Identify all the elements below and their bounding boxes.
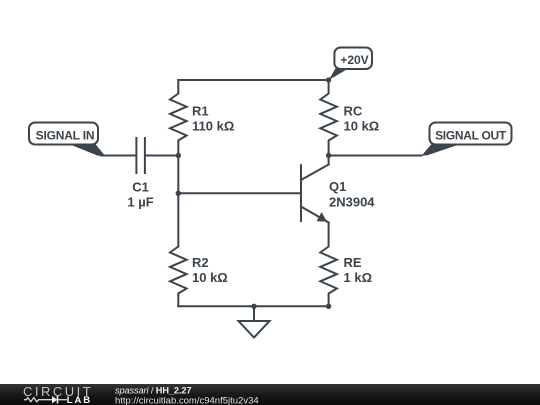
- footer url line: [115, 395, 259, 405]
- logo LAB: [67, 395, 92, 405]
- svg-text:RE: RE: [344, 255, 362, 270]
- wire signal out: [329, 155, 422, 157]
- node: base wire junction: [176, 191, 181, 196]
- svg-text:spassari / HH_2.27: spassari / HH_2.27: [115, 386, 191, 396]
- svg-text:10 kΩ: 10 kΩ: [344, 119, 380, 134]
- svg-text:RC: RC: [344, 104, 363, 119]
- resistor R2: [170, 247, 228, 307]
- svg-text:1 kΩ: 1 kΩ: [344, 270, 373, 285]
- resistor RE: [320, 223, 372, 307]
- resistor RC: [320, 80, 379, 156]
- footer bar: [0, 384, 540, 405]
- flag SIGNAL OUT: [422, 123, 512, 156]
- ground: [239, 306, 270, 337]
- svg-text:http://circuitlab.com/c94nf5jt: http://circuitlab.com/c94nf5jtu2v34: [115, 395, 259, 405]
- svg-text:C1: C1: [132, 180, 149, 195]
- flag SIGNAL IN: [29, 123, 105, 156]
- svg-text:110 kΩ: 110 kΩ: [192, 119, 234, 134]
- svg-text:R2: R2: [192, 255, 209, 270]
- node: RE bottom junction: [326, 304, 331, 309]
- node: base divider junction (C1/R1/R2): [176, 153, 181, 158]
- wire top rail (+20V net): [178, 79, 328, 81]
- svg-text:2N3904: 2N3904: [329, 194, 375, 209]
- transistor Q1: [301, 156, 375, 223]
- wire bottom rail (ground net): [178, 305, 328, 307]
- footer title line: [115, 386, 191, 396]
- node: +20V junction: [326, 77, 331, 82]
- wire signal-in to C1: [101, 155, 136, 157]
- svg-text:+20V: +20V: [340, 53, 368, 67]
- resistor R1: [170, 80, 234, 156]
- logo resistor squiggle: [24, 398, 52, 402]
- logo diode: [52, 396, 67, 404]
- flag +20V: [329, 48, 372, 81]
- svg-text:Q1: Q1: [329, 179, 346, 194]
- wire left branch vertical (node to R2): [177, 156, 179, 247]
- svg-text:10 kΩ: 10 kΩ: [192, 270, 228, 285]
- svg-text:LAB: LAB: [67, 395, 92, 405]
- svg-text:SIGNAL OUT: SIGNAL OUT: [435, 129, 507, 143]
- svg-text:R1: R1: [192, 104, 209, 119]
- svg-text:SIGNAL IN: SIGNAL IN: [36, 129, 95, 143]
- node: collector junction: [326, 153, 331, 158]
- node: ground junction: [251, 304, 256, 309]
- capacitor C1: [127, 138, 153, 210]
- wire C1 to node: [146, 155, 178, 157]
- wire base (node to Q1 base): [178, 192, 301, 194]
- svg-text:1 µF: 1 µF: [127, 195, 153, 210]
- CircuitLab logo wordmark: [23, 384, 93, 399]
